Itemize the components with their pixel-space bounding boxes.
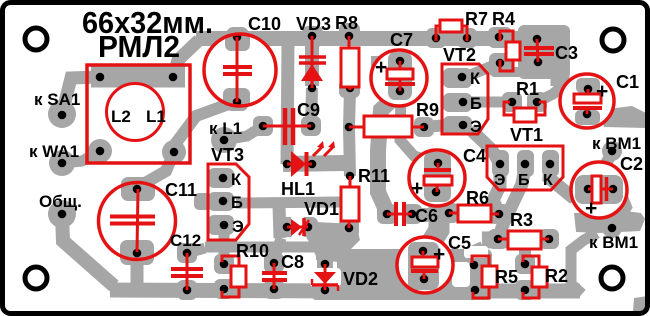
coil L circle fill	[106, 83, 164, 141]
svg-text:VT2: VT2	[443, 45, 476, 65]
capacitor C10	[204, 34, 276, 106]
node C9 pin 2	[307, 122, 316, 131]
wire R8 bottom to R9 left to R11 top	[349, 90, 350, 176]
pad C9 right	[301, 116, 321, 136]
capacitor C6	[387, 202, 412, 226]
svg-text:К: К	[470, 70, 481, 88]
node R3 pin 1	[494, 235, 503, 244]
pad WA1	[49, 150, 75, 176]
LED HL1	[287, 141, 335, 177]
svg-text:R7: R7	[465, 9, 488, 29]
pad VD2 bottom	[315, 280, 335, 300]
wire R1 right to junction	[537, 88, 560, 102]
svg-text:Б: Б	[518, 172, 530, 189]
node VT2 pin K	[458, 73, 467, 82]
pad R2 bottom	[515, 280, 535, 300]
pad C5 inner column	[408, 242, 439, 290]
resistor R4	[500, 31, 520, 71]
wire coil BR pad to C11 top	[140, 152, 174, 186]
pad VT1 base	[517, 150, 534, 177]
wire ground diagonal from Obsh	[62, 216, 114, 286]
pad VD3 top	[302, 26, 323, 47]
node Obshch pin (ground)	[58, 210, 67, 219]
node HL1 pin 2	[308, 160, 317, 169]
svg-text:R9: R9	[416, 100, 439, 120]
node R8 pin 2	[346, 84, 355, 93]
wire R5 top to C5 mass	[459, 258, 474, 264]
node C3 pin 1	[533, 35, 542, 44]
svg-text:C12: C12	[170, 231, 201, 250]
pad C6 right	[402, 204, 422, 224]
wire VD3 column	[305, 38, 319, 86]
capacitor C9	[263, 108, 311, 145]
svg-text:Общ.: Общ.	[39, 192, 82, 211]
node C9 pin 1	[259, 122, 268, 131]
wire WA1 to coil BL pad	[62, 151, 100, 163]
node C11 pin 2	[133, 249, 142, 258]
pad C11 top inner	[121, 177, 155, 201]
wire HL1 band	[283, 163, 344, 164]
node C12 pin 1	[183, 249, 192, 258]
pad C1 bottom inner	[575, 110, 600, 125]
node R10 pin 1	[220, 260, 229, 269]
pad R6 right	[489, 204, 509, 224]
svg-text:Э: Э	[470, 118, 482, 136]
svg-text:к SA1: к SA1	[34, 90, 80, 109]
svg-text:C11: C11	[165, 180, 197, 200]
pad R1 right	[527, 92, 547, 112]
svg-text:к L1: к L1	[209, 119, 242, 138]
svg-text:+: +	[375, 56, 387, 79]
capacitor C8	[262, 263, 287, 289]
pad C4 inner column	[424, 152, 451, 202]
wire C7 top stub	[371, 56, 400, 68]
hole top-right	[602, 29, 624, 51]
svg-text:C1: C1	[616, 72, 639, 92]
node VT3 pin K	[219, 174, 228, 183]
node C10 pin 1	[233, 33, 242, 42]
wire coil top interior band	[91, 67, 185, 88]
wire VT1 E to R6 right	[493, 166, 500, 213]
node R4 pin 2	[496, 59, 505, 68]
pad R1 left	[502, 92, 522, 112]
wire band elbow to coil TR pad	[173, 40, 199, 77]
wire R9 right to VT2 E	[424, 125, 463, 127]
wire C2 column down	[571, 233, 597, 294]
node R5 pin 1	[470, 261, 479, 270]
pad C8 top	[264, 253, 284, 273]
pad C2 inner band	[575, 175, 623, 204]
node VD1 pin 2	[304, 223, 313, 232]
svg-text:L2: L2	[111, 107, 131, 126]
wire VT3 B band to VD1	[236, 202, 340, 203]
pad R7 right	[457, 28, 477, 48]
pad VT2 base	[443, 93, 472, 112]
node VD3 pin 2	[308, 84, 317, 93]
pad C12 bottom	[177, 280, 197, 300]
capacitor C4 circle fill	[409, 150, 465, 206]
node C2 pin 2	[609, 185, 618, 194]
wire VT2 K to R4 bottom	[468, 63, 500, 76]
node R7 pin 2	[463, 34, 472, 43]
capacitor C2 circle fill	[571, 162, 627, 218]
resistor R9	[349, 116, 424, 137]
svg-text:К: К	[231, 171, 242, 189]
svg-text:C3: C3	[555, 43, 578, 63]
node white pocket above R5	[464, 246, 488, 258]
capacitor C12	[171, 253, 203, 290]
node VD2 junction mass	[316, 222, 360, 262]
coil L1 L2 circle	[107, 84, 164, 141]
pad VT3 emitter	[208, 215, 234, 235]
wire VD1 left column	[279, 205, 280, 238]
node VD2 pin 2	[321, 286, 330, 295]
node R11 pin 2	[345, 224, 354, 233]
svg-text:+: +	[596, 80, 608, 103]
transistor VT2	[442, 64, 488, 134]
pad SA1	[48, 100, 76, 128]
node VT1 pin E	[496, 160, 505, 169]
pad coil BR	[162, 140, 186, 164]
resistor R2	[523, 256, 547, 298]
svg-text:C4: C4	[463, 146, 486, 166]
node BM1 bottom pin	[608, 224, 617, 233]
node VT1 pin B	[521, 160, 530, 169]
pad R9 right	[414, 117, 434, 137]
wire VT1 K to C2 left	[549, 166, 586, 196]
capacitor C5	[397, 237, 453, 293]
pad R5 top	[464, 255, 484, 275]
node bottom center mass	[312, 281, 492, 300]
wire VT1 B to R3 left	[498, 166, 525, 239]
node R1 pin 1	[508, 98, 517, 107]
svg-text:Б: Б	[470, 95, 482, 113]
pad R2 top	[515, 254, 535, 274]
node C4 plus pin	[434, 159, 443, 168]
node coil L pad BL	[96, 147, 105, 156]
transistor VT3	[208, 164, 249, 240]
wire C7 bottom to C6 left	[378, 93, 399, 212]
capacitor C5 circle fill	[397, 237, 453, 293]
pad R4 bottom	[489, 53, 513, 77]
wire VD1 left to C8 top	[275, 238, 281, 258]
pad R6 left	[439, 203, 459, 223]
wire R2 top neck	[519, 250, 531, 264]
pad Obsh	[48, 200, 76, 228]
node C5 surround mass	[337, 249, 492, 300]
wire SA1 to coil TL pad	[62, 77, 100, 114]
pad C10 top	[227, 27, 248, 48]
node coil L pad BR	[170, 148, 179, 157]
pad C12 top	[177, 243, 197, 263]
pad C10 bottom	[226, 91, 248, 111]
svg-text:VD2: VD2	[343, 269, 378, 289]
node HL1 pin 1	[283, 160, 292, 169]
node VT3 pin E	[220, 221, 229, 230]
capacitor C1 circle fill	[560, 74, 614, 128]
svg-text:РМЛ2: РМЛ2	[98, 29, 180, 64]
pad C10 top inner	[225, 29, 250, 51]
svg-text:+: +	[585, 197, 597, 220]
node C5 plus pin	[419, 247, 428, 256]
capacitor C1	[560, 74, 614, 128]
pad C3 bottom	[528, 52, 548, 72]
svg-text:C5: C5	[448, 233, 471, 253]
svg-text:L1: L1	[146, 107, 166, 126]
pad C7 inner column	[388, 52, 412, 100]
svg-text:К: К	[543, 172, 553, 189]
capacitor C11 circle fill	[99, 183, 176, 260]
svg-text:+: +	[411, 177, 423, 200]
node C6 pin 1	[383, 210, 392, 219]
resistor R8	[341, 36, 359, 90]
node VD1 pin 1	[283, 223, 292, 232]
svg-text:C9: C9	[297, 100, 320, 120]
svg-text:к BM1: к BM1	[592, 134, 641, 153]
svg-text:C10: C10	[248, 14, 281, 34]
pad R3 right	[539, 229, 559, 249]
wire R10 top neck	[219, 247, 230, 264]
pad C6 left	[377, 204, 397, 224]
pad R10 top	[214, 254, 234, 274]
wire C4 bottom column to C5 top	[429, 194, 439, 246]
node top-right cluster block	[518, 25, 570, 79]
node C6 pin 2	[408, 210, 417, 219]
node R10 pin 2	[220, 285, 229, 294]
pad R7 left	[426, 28, 446, 48]
svg-text:VD3: VD3	[296, 14, 331, 34]
wire VD2 column	[317, 240, 333, 272]
node BM1 top pin	[608, 147, 617, 156]
svg-text:VD1: VD1	[304, 199, 339, 219]
coil L1 L2 square	[87, 65, 190, 163]
pad R4 top	[488, 27, 512, 48]
capacitor C2	[571, 162, 627, 218]
node R9 pin 2	[420, 123, 429, 132]
capacitor C11	[99, 183, 176, 260]
hole bottom-right	[601, 267, 623, 289]
pad VT1 emitter	[492, 150, 509, 177]
pad BM1 bottom	[602, 218, 622, 238]
wire R5 top neck	[472, 247, 483, 265]
node SA1 pin	[58, 111, 67, 120]
pad VT2 collector	[443, 68, 472, 88]
wire VD1 right to VD2 top	[308, 227, 325, 260]
node C3 pin 2	[534, 58, 543, 67]
svg-text:C8: C8	[281, 252, 304, 272]
svg-text:+: +	[433, 243, 445, 266]
svg-text:R5: R5	[495, 267, 518, 287]
wire C6 right to R6 left band	[410, 208, 452, 222]
node R4 pin 1	[495, 33, 504, 42]
node VT2 pin B	[459, 98, 468, 107]
node R9 pin 1	[345, 123, 354, 132]
hole bottom-left	[25, 267, 47, 289]
node C8 pin 2	[270, 285, 279, 294]
pad coil BL	[88, 139, 112, 163]
node C2 under band	[574, 211, 645, 233]
wire VT3 E column	[219, 229, 230, 247]
node VT1 pin K	[546, 160, 555, 169]
node R6 pin 1	[445, 209, 454, 218]
wire junction to C1 top	[558, 87, 588, 89]
wire bottom-right ground band	[459, 284, 580, 299]
wire C7 bottom to C4 top	[400, 95, 437, 163]
pad C10 bottom inner	[223, 88, 250, 108]
pad R8 bottom	[339, 79, 360, 98]
node R2 pin 1	[521, 260, 530, 269]
svg-text:R2: R2	[545, 266, 568, 286]
wire right bar down from cluster	[551, 46, 570, 86]
diode VD1	[287, 218, 309, 236]
node VD3 pin 1	[308, 32, 317, 41]
node C7 plus pin	[396, 57, 405, 66]
svg-text:R8: R8	[335, 13, 358, 33]
pad VT3 base stub	[194, 193, 212, 210]
resistor R3	[498, 231, 549, 249]
pad C8 bottom	[264, 279, 284, 299]
svg-text:R6: R6	[466, 188, 489, 208]
node C1 minus pin	[583, 110, 592, 119]
capacitor C4	[409, 150, 465, 206]
hole top-left	[25, 28, 47, 50]
pad C1 top inner	[576, 78, 600, 93]
svg-text:к BM1: к BM1	[589, 233, 638, 252]
capacitor C7	[371, 50, 427, 106]
wire kL1 pad to C9 left	[224, 126, 263, 140]
wire C11 bottom column	[131, 253, 144, 284]
node R1 pin 2	[533, 98, 542, 107]
node C2 pin 1	[584, 185, 593, 194]
node coil L pad TL	[96, 73, 105, 82]
node C12 pin 2	[183, 286, 192, 295]
node WA1 pin	[58, 159, 67, 168]
wire C2 right hook	[613, 189, 626, 218]
wire top supply band	[196, 31, 520, 46]
node white window around VD1	[291, 215, 304, 238]
svg-text:C6: C6	[415, 206, 438, 226]
wire band column through C9 bars to HL1 left	[287, 44, 288, 164]
wire R11 bottom to VD2 mass	[325, 228, 349, 261]
node C11 pin 1	[133, 185, 142, 194]
pad C3 top	[527, 29, 547, 49]
svg-text:R4: R4	[492, 9, 515, 29]
node C5 minus pin	[420, 275, 429, 284]
pad BM1 top	[602, 141, 622, 161]
node R2 pin 2	[521, 286, 530, 295]
resistor R1	[504, 102, 545, 122]
node R7 pin 1	[432, 34, 441, 43]
svg-text:HL1: HL1	[281, 179, 315, 199]
diode VD2	[312, 264, 338, 291]
resistor R5	[472, 256, 497, 298]
node kL1 pin	[220, 136, 229, 145]
pad VT3 base	[208, 192, 234, 211]
resistor R10	[222, 256, 246, 297]
svg-text:R3: R3	[510, 210, 533, 230]
node R5 pin 2	[471, 286, 480, 295]
pad VT3 collector	[208, 168, 234, 188]
pad VD1 right	[298, 217, 318, 237]
node VD2 pin 1	[321, 260, 330, 269]
pad VT2 emitter	[443, 116, 472, 135]
wire R4 bottom to C3 bottom bridge	[505, 67, 527, 77]
node white pocket left of R5	[452, 262, 470, 287]
node R6 pin 2	[495, 210, 504, 219]
node C7 minus pin	[396, 87, 405, 96]
capacitor C3	[524, 39, 554, 62]
wire C10 bottom to coil BR pad	[174, 101, 237, 152]
node right blob	[599, 106, 646, 128]
node C4 minus pin	[432, 188, 441, 197]
wire VT2 E down to VT1 E	[470, 129, 500, 164]
resistor R7	[436, 20, 467, 41]
svg-text:R1: R1	[516, 79, 539, 99]
wire VD3 bottom to C9 right	[311, 88, 312, 126]
node R11 pin 1	[346, 172, 355, 181]
svg-text:к WA1: к WA1	[29, 142, 79, 161]
transistor VT1	[487, 146, 563, 190]
capacitor C10 circle fill	[204, 34, 276, 106]
node VT2 pin E	[459, 121, 468, 130]
svg-text:C7: C7	[390, 30, 413, 50]
pad VT1 collector	[542, 150, 559, 177]
pad kL1	[211, 127, 237, 153]
pad R8 top	[339, 23, 360, 44]
pad R11 bottom	[339, 218, 359, 238]
wire VT2 B to R1 left	[468, 97, 512, 108]
pad VD1 left	[277, 217, 297, 237]
node C8 pin 1	[270, 259, 279, 268]
node VT3 pin B	[219, 197, 228, 206]
node bottom-right corner copper	[633, 296, 648, 311]
diode VD3	[299, 36, 326, 88]
wire bottom ground band	[110, 290, 345, 291]
node C10 pin 2	[233, 98, 242, 107]
wire C12 top link	[187, 248, 205, 253]
svg-text:C2: C2	[620, 154, 643, 174]
svg-text:R11: R11	[358, 166, 390, 186]
svg-text:Э: Э	[232, 218, 244, 236]
resistor R11	[341, 176, 359, 228]
capacitor C7 circle fill	[371, 50, 427, 106]
node C1 plus pin	[584, 85, 593, 94]
pad R5 bottom	[465, 280, 485, 300]
node coil L pad TR	[169, 73, 178, 82]
pad R10 bottom	[214, 279, 234, 299]
node R3 pin 2	[545, 235, 554, 244]
wire C8 top neck	[269, 247, 280, 263]
wire VT3 E band	[205, 242, 322, 253]
resistor R6	[449, 205, 499, 222]
svg-text:VT1: VT1	[510, 125, 543, 145]
svg-text:Э: Э	[494, 172, 505, 189]
svg-text:R10: R10	[236, 241, 269, 261]
svg-text:VT3: VT3	[211, 145, 244, 165]
pad C11 bottom inner	[120, 240, 154, 265]
pad R3 left	[488, 229, 508, 249]
wire BM1 top pad down to C2 left	[592, 153, 612, 181]
wire C1 bottom to right blob	[587, 114, 606, 116]
node white window around VD2	[310, 268, 341, 287]
wire R3 band	[482, 239, 556, 240]
node R8 pin 1	[345, 32, 354, 41]
pad C9 left	[253, 116, 273, 136]
svg-text:Б: Б	[231, 194, 243, 212]
